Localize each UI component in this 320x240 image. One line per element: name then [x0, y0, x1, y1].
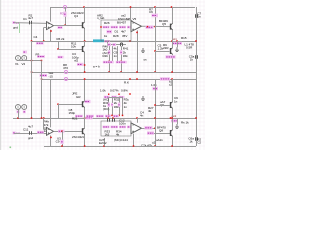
node b-rail x113 [112, 117, 114, 119]
svg-text:o2: o2 [152, 140, 156, 144]
wire source output [18, 60, 42, 62]
node network2 top c [118, 94, 119, 95]
wire U1 output to Q1 base [54, 25, 83, 27]
svg-text:150p: 150p [69, 111, 76, 115]
ground stub below OUT2 rail [177, 118, 179, 124]
wire stub rail to network b [121, 41, 123, 45]
capacitor C14 on right rail bottom [196, 137, 198, 141]
node network bottom a [108, 61, 110, 63]
node x155 lower rail junction [154, 71, 156, 73]
node rail-junction x172 [171, 40, 173, 42]
wire V+ right drop / right rail [196, 7, 198, 146]
wire input branch down to feedback rail [31, 25, 33, 41]
node junction top rail at Q3 collector [171, 6, 173, 8]
wire Q4 collector [172, 41, 174, 48]
svg-text:KSC1845_V5: KSC1845_V5 [118, 17, 137, 21]
label highlighted net on U3 output [58, 130, 65, 133]
label long highlighted row inside U2 box [103, 26, 110, 29]
node junction top rail at Q1 collector [83, 6, 85, 8]
capacitor C11 input coupling [30, 131, 32, 135]
node label anchor [147, 26, 148, 27]
label highlighted on emitter leg [77, 63, 83, 66]
wire Q4 emitter [172, 54, 174, 72]
node rail-junction x31 [31, 40, 33, 42]
op-amp U1 input stage [47, 22, 54, 30]
transistor Q2 current source [83, 46, 85, 53]
svg-text:D1: D1 [115, 29, 119, 33]
resistor Rm body [111, 103, 113, 107]
wire U1 negative supply pin [50, 30, 52, 41]
label highlighted net under rail start [36, 42, 44, 45]
wire Q2 emitter down [84, 52, 86, 72]
svg-text:4k: 4k [116, 132, 120, 136]
capacitor C1 input coupling [30, 21, 32, 25]
svg-text:a = b: a = b [93, 64, 100, 68]
label highlighted on Q8 base wire [147, 131, 154, 134]
svg-text:C1: C1 [23, 17, 27, 21]
svg-text:2SC3423: 2SC3423 [72, 135, 85, 139]
wire U2 negative supply down [137, 30, 139, 72]
node network top joint [129, 93, 131, 95]
node Q9 lower junction [171, 117, 173, 119]
node junction R3/output [64, 24, 66, 26]
wire V+ left drop to op-amp U1 power pin [50, 7, 52, 22]
wire U1 + input feedback [44, 27, 47, 29]
label magenta net after cyan [105, 40, 111, 43]
wire bottom network tie [109, 97, 123, 99]
resistor chain Rd2 [122, 98, 124, 116]
capacitor network C23 [121, 43, 123, 47]
svg-text:Q4: Q4 [74, 14, 78, 18]
svg-text:4k: 4k [148, 109, 152, 113]
label highlighted net on U2 output [146, 25, 154, 29]
node b-rail x31 [31, 117, 33, 119]
svg-text:V2: V2 [22, 62, 26, 66]
svg-text:gnd: gnd [13, 26, 18, 30]
node V- rail x62 [61, 145, 63, 147]
node emitter leg junction [84, 64, 86, 66]
node Q9 base tap [154, 104, 156, 106]
node V- rail x133 [133, 145, 135, 147]
wire top network tie [107, 44, 126, 46]
wire Q3 collector to V+ [172, 7, 174, 23]
capacitor C12 branch to V- rail [62, 131, 64, 146]
wire Q8 collector down to V- rail [172, 136, 174, 146]
svg-text:36k: 36k [114, 105, 119, 109]
svg-text:22R: 22R [163, 46, 169, 50]
resistor Ra body highlighted [108, 50, 111, 55]
transistor Q9 KSA bottom [171, 102, 173, 109]
label highlighted near x51 leg [58, 56, 64, 59]
label highlighted at Q7 [85, 100, 91, 103]
node mid-A x31 [31, 71, 33, 73]
wire U4 negative supply [133, 134, 135, 146]
label long highlighted row inside U4 box [103, 126, 110, 129]
label highlighted row bottom of network left [103, 61, 114, 64]
svg-text:n_lab: n_lab [97, 16, 105, 20]
port IN1 input flag [13, 21, 16, 24]
node V- rail x104 [103, 145, 105, 147]
node network2 bottom a [108, 115, 110, 117]
svg-text:V1: V1 [15, 62, 19, 66]
label highlighted near x172 mid [160, 77, 170, 80]
node mid-A x172 [171, 71, 173, 73]
svg-text:1k: 1k [190, 58, 194, 62]
resistor chain Rc1 [108, 98, 110, 116]
capacitor network C21 highlighted [108, 43, 112, 46]
resistor Rc body highlighted [107, 103, 110, 108]
node output/x155 junction [154, 26, 155, 27]
svg-text:C4: C4 [34, 35, 38, 39]
label highlighted rows at network bottom [75, 115, 83, 118]
node b-rail x137 [136, 117, 138, 119]
svg-text:(DC): (DC) [103, 107, 109, 111]
wire U3 negative supply pin [50, 135, 52, 146]
label under V4 [23, 110, 26, 113]
node source/xB junction [41, 60, 43, 62]
transistor Q3 BF469 driver [171, 23, 173, 30]
node V- rail x171 [171, 145, 173, 147]
wire U2 positive supply to V+ rail [130, 7, 132, 20]
svg-text:1.0k: 1.0k [100, 89, 106, 93]
voltage source V2 circle [22, 56, 27, 61]
wire U3 output to Q6 base [54, 131, 83, 133]
label highlighted net on IN2 wire [37, 131, 44, 134]
svg-text:1.0k: 1.0k [151, 83, 157, 87]
op-amp U2 triangle [131, 21, 142, 32]
wire U2 output to driver [142, 25, 171, 27]
label highlighted row bottom of network right [116, 61, 127, 64]
op-amp U4 body box [101, 121, 131, 136]
transistor Q8 BF470 driver bottom [171, 130, 173, 137]
node b-rail x84 [84, 117, 86, 119]
node V- rail x84 [84, 145, 86, 147]
transistor Q6 2SC3423 bottom [83, 128, 85, 135]
wire top supply rail V+ [50, 7, 195, 9]
port IN2 input flag [13, 131, 16, 134]
svg-text:100n: 100n [119, 121, 126, 125]
svg-text:Rs 1k: Rs 1k [181, 120, 189, 124]
wire Q6 emitter up [84, 118, 86, 128]
node U2 negative supply junction [136, 32, 138, 34]
wire highlighted net stub (green) [19, 23, 21, 33]
wire Q7 collector down [84, 108, 86, 119]
svg-text:C6: C6 [149, 10, 153, 14]
svg-text:R2: R2 [29, 14, 33, 18]
svg-text:470: 470 [63, 66, 68, 70]
wire mid rail B (y79) [42, 79, 197, 81]
node network2 bottom c [118, 115, 120, 117]
node b-rail x40 [41, 117, 43, 119]
op-amp U4 triangle [131, 123, 142, 134]
wire network to mid rail b [121, 63, 123, 72]
wire mid rail A (y72) [32, 72, 197, 74]
ground symbol mid right bottom [141, 96, 145, 100]
svg-text:gnd: gnd [28, 136, 33, 140]
capacitor network C22 highlighted [113, 43, 117, 46]
svg-text:Q5: Q5 [162, 22, 166, 26]
node mid-A x137 [136, 71, 138, 73]
label highlighted OUT2 pink box [171, 119, 178, 122]
wire to Q9 base [155, 105, 170, 107]
wire D2 leg [155, 79, 157, 94]
svg-text:nf2: nf2 [74, 58, 79, 62]
resistor R12 on x155 branch [155, 7, 157, 72]
wire Q7 emitter up [84, 79, 86, 101]
voltage source V3 circle [16, 105, 21, 110]
label highlighted net left of x155 [145, 24, 148, 26]
svg-text:0.8%: 0.8% [121, 89, 128, 93]
svg-text:R6 2k: R6 2k [57, 37, 65, 41]
resistor R3 from V+ rail [65, 7, 67, 25]
node U2 supply junction on rail [130, 6, 132, 8]
capacitor C13 at box top [108, 118, 110, 122]
wire U4 output jog down [155, 128, 157, 133]
resistor chain Ra1 [109, 46, 111, 61]
node Q7 emitter junction [84, 78, 86, 80]
node mid-B x137 [136, 78, 138, 80]
node right rail b-junction [195, 117, 197, 119]
node U3 supply junction [50, 137, 52, 139]
node b-rail x43 [43, 117, 45, 119]
label highlighted net OUT1 pink box [172, 42, 182, 45]
voltage source V1 circle [16, 56, 21, 61]
transistor Q4 KSA output [171, 48, 173, 55]
node output/x62 junction [61, 130, 63, 132]
node x155 bottom rail [154, 145, 156, 147]
svg-text:os: os [144, 57, 148, 61]
label highlighted KSA992 below Q4 [166, 55, 176, 58]
node b-rail x18 [17, 117, 19, 119]
resistor chain Rc2 [112, 98, 114, 116]
label highlighted net between rails [40, 74, 48, 77]
node b-rail x108 [107, 117, 109, 119]
resistor chain Ra2 [112, 46, 114, 61]
wire Q9 lower leg [172, 108, 174, 118]
wire left long vertical A [31, 41, 33, 118]
svg-text:R26: R26 [104, 21, 110, 25]
resistor chain Rb2 [121, 46, 123, 61]
wire tap to Q2 base [58, 41, 60, 49]
pin port pin on mid rail A [65, 71, 68, 74]
pin port pin on mid rail B [65, 78, 68, 81]
node network2 bottom b [111, 115, 113, 117]
op-amp U2 body box [101, 20, 131, 41]
voltage source V4 circle [22, 105, 27, 110]
ground symbol at output zobel [177, 41, 179, 47]
svg-text:1n: 1n [174, 99, 178, 103]
node rail-junction x177 [176, 40, 178, 42]
svg-text:uA11: uA11 [156, 138, 163, 142]
wire U4 positive supply [137, 118, 139, 123]
svg-text:0.5R: 0.5R [186, 46, 193, 50]
svg-text:c2: c2 [169, 83, 173, 87]
resistor Rb body highlighted [120, 50, 123, 55]
node U4 out junction [154, 127, 156, 129]
resistor Rd body highlighted [118, 103, 121, 108]
svg-text:BU457: BU457 [117, 21, 127, 25]
wire Q6 collector down [84, 135, 86, 147]
node rail-junction x130 [129, 40, 131, 42]
wire tap to Q7 base bottom [58, 104, 60, 118]
svg-text:R28: R28 [113, 34, 119, 38]
wire Q2 collector up [84, 41, 86, 46]
label under V3 [17, 110, 20, 113]
node mid-B x172 [171, 78, 173, 80]
transistor Q1 2SC3423 [83, 22, 85, 29]
label highlighted on U4 output [145, 126, 153, 130]
wire Q8 emitter up [172, 118, 174, 130]
node U1 supply pin junction [50, 30, 52, 32]
wire stub x104 [104, 138, 106, 146]
node feedback junction [43, 40, 45, 42]
node U2 box left pin [100, 26, 102, 28]
svg-text:1.2k: 1.2k [158, 47, 164, 51]
node Q7 base tap [57, 103, 59, 105]
op-amp U3 input stage bottom [47, 127, 54, 135]
svg-text:R15: R15 [181, 36, 187, 40]
wire stub rail to network a [107, 41, 109, 45]
node network2 top a [108, 94, 109, 95]
resistor branch x155 bottom [155, 94, 157, 146]
node junction top rail at x155 [154, 6, 156, 8]
wire bottom feedback rail (y118) [13, 118, 196, 120]
svg-text:0.07%: 0.07% [110, 89, 119, 93]
svg-text:1k: 1k [189, 140, 193, 144]
wire Q3 emitter down to output rail [172, 30, 174, 41]
wire to Q4 base [155, 51, 170, 53]
svg-text:1k: 1k [104, 34, 108, 38]
node network bottom b [120, 61, 122, 63]
wire left long vertical B [41, 61, 43, 119]
transistor Q7 current source bottom [83, 101, 85, 108]
wire Q1 emitter down [84, 29, 86, 42]
node source/xA junction [31, 60, 33, 62]
wire bottom supply rail V- [44, 146, 196, 148]
svg-text:C2: C2 [197, 141, 201, 145]
node x155 Vbe tap [154, 50, 156, 52]
ground symbol mid right [141, 48, 145, 52]
node rail-junction x84 [84, 40, 86, 42]
green speck bottom left [10, 147, 12, 149]
wire U4 output [142, 128, 156, 130]
node right rail junction [195, 40, 197, 42]
svg-text:4n: 4n [140, 113, 144, 117]
wire U3 positive supply pin [50, 79, 52, 127]
node mid-A x84 [84, 71, 86, 73]
svg-text:(MC)C124: (MC)C124 [114, 138, 128, 142]
resistor network highlighted components row [104, 96, 110, 99]
svg-text:1k5: 1k5 [105, 132, 110, 136]
wire feedback rail (mid horizontal) [32, 41, 197, 43]
node mid-B x40 [41, 78, 43, 80]
node Q2 base tap [57, 48, 59, 50]
svg-text:-15: -15 [49, 74, 54, 78]
svg-text:4k7: 4k7 [121, 29, 126, 33]
node mid-A x121 [120, 71, 122, 73]
wire Q1 collector to V+ rail [84, 7, 86, 22]
svg-text:R3: R3 [60, 12, 64, 16]
svg-text:R.K: R.K [124, 81, 129, 85]
svg-text:10k: 10k [71, 45, 76, 49]
node b-rail x170 [170, 117, 172, 119]
wire input net IN1 [14, 22, 47, 25]
label above source [23, 51, 27, 54]
resistor chain Rb1 [117, 46, 119, 61]
ground symbol below OUT2 rail [175, 124, 179, 128]
label net name cyan highlighted [93, 39, 104, 42]
pin port pin P1 on top rail [64, 6, 67, 9]
svg-text:1n: 1n [124, 105, 128, 109]
svg-text:36k: 36k [123, 54, 128, 58]
svg-text:35V: 35V [122, 34, 127, 38]
diode D1 inside box [107, 30, 113, 34]
svg-text:1n: 1n [114, 54, 118, 58]
node rail-junction x107 [106, 40, 108, 42]
label highlighted right of b-rail x84 [86, 116, 93, 119]
resistor chain Rd1 [119, 98, 121, 116]
svg-text:1n: 1n [197, 15, 201, 19]
wire V3 to bottom rail [18, 110, 20, 118]
node x155 b-rail [154, 117, 156, 119]
node mid-A x109 [108, 71, 110, 73]
wire to Q8 base [149, 133, 171, 135]
node network2 bottom d [122, 115, 124, 117]
svg-text:4u7: 4u7 [28, 124, 33, 128]
capacitor C8 on right rail [196, 55, 198, 59]
svg-text:E2C2: E2C2 [99, 141, 107, 145]
node mid-B x130 [129, 78, 131, 80]
svg-text:C9: C9 [56, 139, 60, 143]
label net name highlighted on U1 output [58, 26, 63, 29]
wire Q9 upper leg [172, 79, 174, 102]
capacitor C7 on right rail top [196, 14, 198, 18]
wire U3 + input feedback [44, 129, 47, 131]
svg-text:R2b: R2b [103, 54, 109, 58]
wire network to mid rail a [109, 63, 111, 72]
wire input net IN2 [14, 133, 47, 135]
svg-text:Q8: Q8 [159, 129, 163, 133]
